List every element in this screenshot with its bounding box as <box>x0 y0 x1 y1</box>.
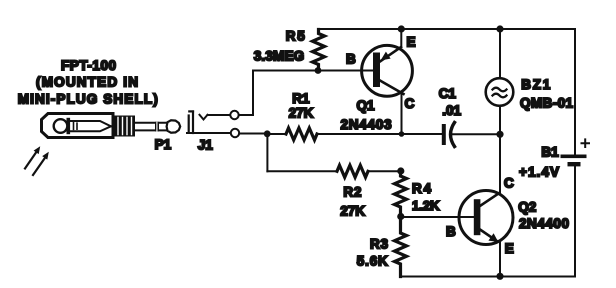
junction BZ1 at top rail <box>496 25 503 32</box>
junction Q1 emitter at top rail <box>398 25 405 32</box>
buzzer BZ1 <box>486 29 514 134</box>
svg-text:MINI-PLUG SHELL): MINI-PLUG SHELL) <box>18 92 158 107</box>
svg-text:2N4403: 2N4403 <box>341 117 392 132</box>
resistor R1 <box>286 128 317 140</box>
svg-text:R4: R4 <box>412 181 431 196</box>
svg-text:2N4400: 2N4400 <box>519 216 569 231</box>
svg-text:1.2K: 1.2K <box>412 198 440 213</box>
resistor R5 <box>313 30 325 71</box>
svg-text:R1: R1 <box>292 91 310 106</box>
svg-text:E: E <box>407 35 416 50</box>
svg-text:Q2: Q2 <box>518 199 536 214</box>
svg-text:+1.4V: +1.4V <box>519 165 559 180</box>
svg-text:(MOUNTED IN: (MOUNTED IN <box>36 75 138 90</box>
svg-text:B1: B1 <box>541 145 559 160</box>
junction Q1 collector x R1 line <box>399 131 405 137</box>
resistor R4 <box>395 171 407 216</box>
wire R2 branch riser <box>266 134 268 171</box>
svg-text:FPT-100: FPT-100 <box>61 58 116 73</box>
wire J1 bottom sleeve line <box>187 132 231 134</box>
phototransistor FPT-100 inside shell <box>54 118 115 134</box>
light arrow 1 <box>25 146 40 168</box>
svg-text:27K: 27K <box>289 106 314 121</box>
light arrow 2 <box>33 152 49 175</box>
label + (battery polarity) <box>582 139 590 147</box>
svg-text:R5: R5 <box>286 29 305 44</box>
junction input node <box>264 130 271 137</box>
svg-text:C: C <box>405 96 415 111</box>
svg-text:J1: J1 <box>198 138 214 153</box>
transistor Q2 2N4400 <box>459 134 513 276</box>
wire J1 top contact to corner <box>208 114 231 116</box>
junction R4/R3/Q2 base <box>397 213 404 220</box>
right rail bottom segment <box>574 166 576 276</box>
wire riser to base line <box>252 71 254 116</box>
svg-text:B: B <box>446 224 456 239</box>
bottom rail wire <box>401 276 576 278</box>
junction R5 bottom <box>315 67 322 74</box>
capacitor C1 <box>442 123 455 147</box>
wire to R2 <box>267 170 337 172</box>
wire R1 to C1 <box>319 133 442 135</box>
battery B1 <box>561 155 587 167</box>
wire J1 bottom terminal to junction <box>239 133 264 135</box>
junction BZ1 bottom node <box>496 131 503 138</box>
wire base line to Q1 <box>253 70 373 72</box>
wire C1 to BZ1 branch <box>452 133 501 135</box>
top rail wire <box>319 28 576 30</box>
svg-text:.01: .01 <box>442 103 461 118</box>
phototransistor plug P1 shell <box>42 114 114 138</box>
svg-text:E: E <box>505 241 514 256</box>
svg-text:QMB-01: QMB-01 <box>520 96 573 111</box>
svg-text:C: C <box>504 176 514 191</box>
J1 top terminal <box>230 111 238 119</box>
svg-text:P1: P1 <box>155 137 172 152</box>
jack J1 <box>189 111 208 133</box>
wire R2 to junction <box>370 170 400 172</box>
transistor Q1 2N4403 <box>362 29 413 134</box>
right rail top segment <box>574 29 576 155</box>
svg-text:B: B <box>346 51 356 66</box>
svg-text:3.3MEG: 3.3MEG <box>254 49 305 64</box>
plug tip <box>167 120 181 132</box>
junction R2/R4/Q1 collector <box>397 167 404 174</box>
plug collar (ribbed) <box>114 116 136 137</box>
svg-text:BZ1: BZ1 <box>521 77 550 92</box>
junction Q2 emitter at bottom rail <box>496 273 503 280</box>
wire junction to R1 <box>270 133 286 135</box>
plug shaft <box>135 122 167 132</box>
wire Q2 base <box>404 216 473 218</box>
resistor R3 <box>395 217 407 277</box>
wire J1 top terminal to riser <box>239 114 253 116</box>
svg-text:R3: R3 <box>370 236 388 251</box>
svg-text:R2: R2 <box>343 184 361 199</box>
J1 bottom terminal <box>231 129 239 137</box>
svg-text:5.6K: 5.6K <box>357 253 388 268</box>
resistor R2 <box>337 165 368 177</box>
svg-text:27K: 27K <box>340 203 365 218</box>
svg-text:C1: C1 <box>439 86 457 101</box>
svg-text:Q1: Q1 <box>357 98 376 113</box>
